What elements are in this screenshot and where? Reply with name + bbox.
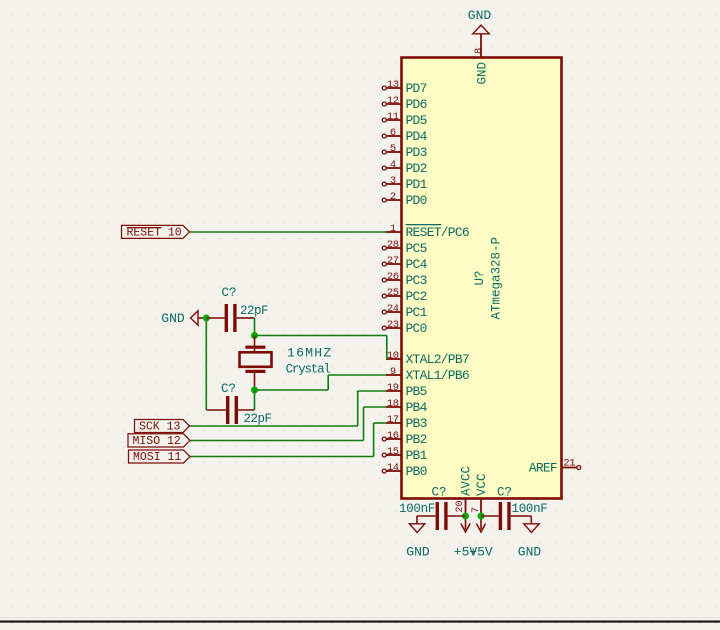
svg-text:25: 25: [387, 287, 399, 299]
svg-text:U?: U?: [473, 270, 487, 285]
svg-text:23: 23: [387, 319, 399, 331]
svg-text:19: 19: [387, 382, 399, 394]
svg-text:PB4: PB4: [406, 400, 428, 415]
svg-text:PD7: PD7: [406, 81, 427, 96]
svg-text:100nF: 100nF: [399, 502, 435, 516]
svg-text:26: 26: [387, 271, 399, 283]
svg-text:100nF: 100nF: [512, 502, 548, 516]
svg-text:AVCC: AVCC: [460, 466, 474, 496]
svg-text:C?: C?: [221, 382, 236, 396]
svg-text:GND: GND: [518, 545, 542, 560]
svg-text:2: 2: [390, 191, 396, 203]
svg-text:VCC: VCC: [475, 473, 489, 496]
svg-text:20: 20: [455, 500, 466, 512]
svg-text:PD2: PD2: [406, 161, 427, 176]
svg-text:18: 18: [387, 398, 399, 410]
svg-text:PC4: PC4: [406, 257, 428, 272]
svg-text:PD0: PD0: [406, 193, 427, 208]
svg-text:4: 4: [390, 159, 396, 171]
svg-text:15: 15: [387, 446, 399, 458]
svg-text:GND: GND: [475, 62, 489, 85]
svg-text:+5V: +5V: [469, 545, 493, 560]
svg-text:6: 6: [390, 127, 396, 139]
svg-text:ATmega328-P: ATmega328-P: [490, 237, 504, 320]
svg-text:10: 10: [387, 350, 399, 362]
svg-text:PC1: PC1: [406, 305, 428, 320]
svg-text:PC3: PC3: [406, 273, 427, 288]
svg-text:16MHZ: 16MHZ: [287, 346, 333, 361]
svg-text:GND: GND: [161, 311, 185, 326]
svg-text:XTAL2/PB7: XTAL2/PB7: [406, 352, 469, 367]
svg-text:8: 8: [473, 48, 485, 54]
svg-text:17: 17: [387, 414, 399, 426]
svg-text:RESET 10: RESET 10: [127, 226, 182, 239]
svg-text:PD3: PD3: [406, 145, 427, 160]
svg-text:PC2: PC2: [406, 289, 427, 304]
svg-text:21: 21: [563, 458, 575, 470]
svg-text:C?: C?: [432, 485, 447, 499]
svg-text:24: 24: [387, 303, 399, 315]
svg-text:PD5: PD5: [406, 113, 427, 128]
svg-text:14: 14: [387, 462, 399, 474]
svg-text:PD4: PD4: [406, 129, 428, 144]
svg-text:5: 5: [390, 143, 396, 155]
svg-text:PB3: PB3: [406, 416, 427, 431]
svg-text:SCK 13: SCK 13: [139, 421, 181, 434]
svg-text:16: 16: [387, 430, 399, 442]
svg-text:27: 27: [387, 255, 399, 267]
svg-text:PC5: PC5: [406, 241, 427, 256]
svg-text:C?: C?: [222, 286, 237, 300]
svg-text:GND: GND: [468, 8, 492, 23]
svg-text:RESET/PC6: RESET/PC6: [406, 225, 469, 240]
svg-text:7: 7: [471, 507, 482, 513]
svg-text:9: 9: [390, 366, 396, 378]
svg-text:1: 1: [390, 223, 396, 235]
svg-text:MOSI 11: MOSI 11: [133, 451, 181, 464]
svg-text:Crystal: Crystal: [286, 363, 331, 377]
svg-text:PB2: PB2: [406, 432, 427, 447]
svg-text:PB5: PB5: [406, 384, 427, 399]
svg-text:XTAL1/PB6: XTAL1/PB6: [406, 368, 469, 383]
svg-text:AREF: AREF: [529, 461, 557, 476]
svg-text:GND: GND: [406, 545, 430, 560]
svg-text:MISO 12: MISO 12: [133, 435, 181, 448]
svg-text:22pF: 22pF: [240, 304, 268, 318]
svg-text:3: 3: [390, 175, 396, 187]
svg-text:PB1: PB1: [406, 448, 428, 463]
svg-text:PD1: PD1: [406, 177, 428, 192]
svg-text:22pF: 22pF: [244, 412, 272, 426]
svg-text:C?: C?: [497, 485, 512, 499]
svg-text:13: 13: [387, 79, 399, 91]
svg-text:11: 11: [387, 111, 399, 123]
svg-text:28: 28: [387, 239, 399, 251]
svg-text:PC0: PC0: [406, 321, 427, 336]
svg-text:PB0: PB0: [406, 464, 427, 479]
svg-text:12: 12: [387, 95, 399, 107]
svg-text:PD6: PD6: [406, 97, 427, 112]
